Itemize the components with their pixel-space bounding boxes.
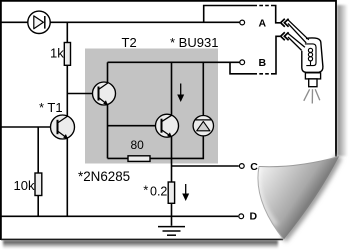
wire: bottom rail: [0, 215, 238, 217]
svg-text:80: 80: [131, 138, 145, 152]
svg-text:1k: 1k: [50, 46, 64, 61]
coil: [308, 48, 312, 52]
svg-text:C: C: [250, 161, 258, 173]
current arrow in module: [177, 84, 184, 103]
wire: T2b base link: [108, 125, 162, 127]
svg-text:* T1: * T1: [39, 100, 63, 115]
wire: collector rail in module to B: [108, 61, 240, 63]
page bottom edge: [1, 238, 283, 240]
resistor 1k: [64, 43, 70, 66]
page curl top crease edge: [259, 157, 339, 167]
wire: 80 resistor row: [108, 136, 204, 159]
svg-text:10k: 10k: [14, 178, 35, 193]
resistor 0.2: [168, 182, 174, 203]
wire: 0.2 to ground and rail: [171, 203, 173, 226]
terminal B: [240, 60, 245, 65]
wire: 10k branch: [37, 127, 39, 216]
injector cables: [288, 20, 309, 51]
right drop shadow: [337, 5, 347, 156]
wire: diode D2 top to rail: [202, 62, 204, 115]
transistor T2a (first of darlington): [93, 82, 116, 105]
wire: 1k branch upper: [66, 22, 68, 42]
nozzle: [305, 73, 320, 79]
terminal D: [239, 214, 244, 219]
wire: T1 base from left rail: [0, 126, 58, 128]
diode D1 in circle (top left): [28, 11, 50, 33]
wire: T2b emitter down to 0.2: [171, 137, 173, 183]
svg-text:A: A: [259, 18, 267, 30]
terminal A: [240, 20, 245, 25]
injector connector chevrons: [281, 19, 289, 41]
resistor 80: [128, 156, 150, 162]
svg-text:T2: T2: [122, 35, 137, 50]
svg-text:*: *: [143, 183, 148, 198]
transistor T2b (output darlington): [156, 114, 179, 137]
wire: top rail: [0, 21, 240, 23]
wire: B lower link: [230, 36, 280, 74]
page curl flap: [258, 157, 339, 240]
wire: T2a base from T1 collector node: [67, 93, 98, 95]
wire: C row: [172, 165, 239, 167]
transistor T1: [51, 115, 75, 139]
wire: T1 emitter down to bottom rail: [66, 139, 68, 217]
svg-text:*2N6285: *2N6285: [78, 169, 130, 184]
diode D2 in circle (module): [193, 116, 213, 136]
wire: T2b collector up to rail: [171, 62, 173, 114]
current arrow at 0.2: [182, 184, 189, 201]
injector spray: [304, 89, 320, 103]
bottom drop shadow: [3, 241, 278, 249]
ground: [158, 227, 185, 236]
resistor 10k: [35, 173, 42, 196]
terminal C: [239, 164, 244, 169]
page curl highlight along left crease: [258, 167, 277, 226]
svg-text:* BU931: * BU931: [170, 35, 218, 50]
wire: T2a emitter down: [107, 105, 109, 159]
svg-text:D: D: [250, 211, 258, 223]
wire: 1k to T1 collector: [66, 65, 68, 116]
page curl cast shadow under fold: [284, 157, 339, 240]
wire: A overhead link horizontal: [204, 6, 280, 23]
injector body: [288, 20, 323, 87]
shaded module area (BU931 block): [85, 49, 218, 164]
wire: T2a collector up to rail: [107, 62, 109, 83]
page curl left crease edge: [258, 167, 284, 240]
svg-text:B: B: [259, 57, 267, 69]
svg-text:0.2: 0.2: [150, 185, 167, 199]
